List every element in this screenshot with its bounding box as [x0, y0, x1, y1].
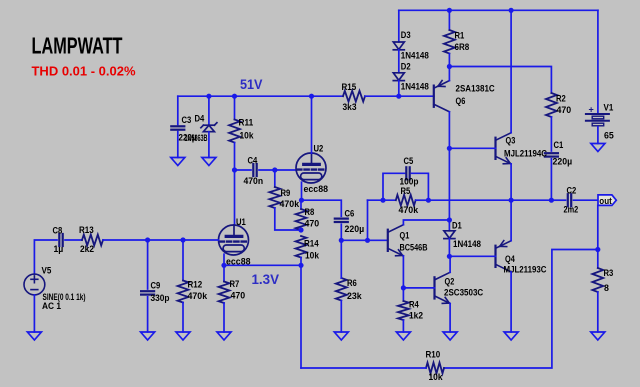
resistor R2 [546, 93, 557, 117]
capacitor C5 [406, 167, 409, 179]
svg-text:C9: C9 [151, 280, 161, 291]
junction Q3 collector rail [509, 8, 514, 13]
junction C5 left [380, 198, 385, 203]
svg-text:V1: V1 [604, 102, 614, 113]
wire R13 to U1 grid [103, 239, 219, 241]
svg-text:+: + [589, 105, 594, 115]
svg-text:LAMPWATT: LAMPWATT [32, 33, 123, 59]
wire Q6 emitter up [448, 67, 450, 81]
wire D1 bottom lead [448, 239, 450, 257]
svg-text:D2: D2 [401, 61, 411, 72]
resistor R5 [396, 195, 416, 206]
resistor R10 [426, 363, 444, 374]
capacitor C4 [253, 164, 256, 176]
svg-text:2m2: 2m2 [564, 204, 579, 215]
wire VAS column [448, 148, 450, 231]
transistor Q3 [496, 133, 512, 164]
wire V1 bottom lead [597, 127, 599, 144]
wire out down [597, 205, 599, 249]
zener D4 [201, 123, 217, 132]
wire D4 top lead [208, 96, 210, 125]
junction R3 R10 out [595, 247, 600, 252]
svg-text:Q2: Q2 [445, 276, 455, 287]
svg-text:Q3: Q3 [506, 135, 516, 146]
wire R8 top lead [300, 200, 302, 209]
ground C3 [171, 158, 185, 166]
svg-text:THD 0.01 - 0.02%: THD 0.01 - 0.02% [32, 65, 136, 79]
svg-text:R15: R15 [342, 81, 357, 92]
triode U2 ecc88 [296, 153, 326, 183]
wire C1 bottom lead [550, 159, 552, 200]
wire cathode row to C6 [302, 200, 342, 216]
svg-text:470k: 470k [188, 290, 208, 301]
wire fb row left [368, 199, 396, 201]
wire C8 to R13 [65, 239, 82, 241]
wire C4 left lead [235, 169, 252, 171]
svg-text:2SA1381C: 2SA1381C [456, 83, 495, 94]
capacitor C6 [335, 219, 348, 222]
svg-text:C6: C6 [345, 208, 355, 219]
svg-text:220µ: 220µ [345, 223, 365, 234]
wire C9 bottom lead [147, 297, 149, 332]
resistor R14 [296, 236, 307, 258]
wire C2 to out flag [574, 199, 598, 201]
wire R1 top lead [448, 10, 450, 30]
svg-text:220µ: 220µ [553, 156, 573, 167]
ground V1 [591, 144, 605, 152]
svg-text:6R8: 6R8 [455, 41, 470, 52]
junction C4 right R9 [272, 167, 277, 172]
svg-text:U2: U2 [314, 143, 324, 154]
wire Q6 collector down [448, 112, 450, 149]
ground D4 [202, 158, 216, 166]
junction R8 R14 R9 [298, 227, 303, 232]
resistor R6 [336, 278, 347, 301]
transistor Q4 [496, 241, 512, 272]
wire D4 bottom lead [208, 132, 210, 158]
wire 51V rail left [178, 95, 343, 97]
wire out row right [551, 199, 565, 201]
svg-text:C4: C4 [248, 155, 258, 166]
resistor R1 [444, 30, 455, 54]
diode D2 [393, 73, 404, 81]
battery V1 [586, 114, 609, 126]
svg-text:R6: R6 [347, 277, 357, 288]
svg-text:51V: 51V [240, 77, 263, 92]
wire C5 loop left [383, 173, 405, 200]
junction C1 out row [549, 198, 554, 203]
ground R7 [217, 332, 231, 340]
diode D3 [393, 42, 404, 50]
wire U1 cathode lead [223, 254, 225, 265]
svg-text:1.3V: 1.3V [252, 272, 280, 287]
junction fb tap [365, 238, 370, 243]
wire R6 top lead [340, 240, 342, 278]
wire U2 cathode lead [301, 182, 303, 200]
junction C9 input row [145, 237, 150, 242]
svg-text:470k: 470k [280, 198, 300, 209]
svg-text:R4: R4 [409, 299, 419, 310]
svg-text:3k3: 3k3 [343, 101, 357, 112]
triode U1 ecc88 [219, 225, 249, 255]
junction C6 R6 base row [339, 238, 344, 243]
svg-text:V5: V5 [42, 265, 52, 276]
svg-text:470k: 470k [399, 204, 419, 215]
svg-text:10k: 10k [305, 249, 320, 260]
ground Q2 [443, 332, 457, 340]
junction D1 Q4 base row [447, 254, 452, 259]
wire Q3 base row [449, 147, 495, 149]
svg-text:470: 470 [557, 104, 572, 115]
wire fb tap up [367, 200, 369, 240]
svg-text:R5: R5 [401, 185, 411, 196]
wire Q1 base row [341, 239, 388, 241]
wire cathode 1.3V row [224, 264, 301, 266]
junction R11 rail [232, 94, 237, 99]
wire R12 top lead [182, 240, 184, 281]
svg-text:R12: R12 [188, 279, 203, 290]
wire Q2 collector up [449, 256, 451, 272]
wire R2 to C1 [550, 117, 552, 151]
wire C4 right lead [259, 169, 275, 171]
wire Q1 emitter down [402, 256, 404, 288]
wire R3 bottom lead [597, 292, 599, 332]
wire fb row right [416, 199, 429, 201]
wire R1 bottom lead [448, 54, 450, 67]
svg-text:470: 470 [305, 217, 320, 228]
svg-text:10k: 10k [429, 371, 444, 382]
wire C9 top lead [147, 240, 149, 289]
svg-text:R7: R7 [230, 278, 240, 289]
wire R4 top lead [402, 288, 404, 301]
svg-text:R3: R3 [604, 267, 614, 278]
svg-text:1µ: 1µ [54, 243, 64, 254]
wire R1-R2 row [449, 67, 551, 94]
svg-text:R2: R2 [556, 93, 566, 104]
svg-text:C1: C1 [554, 139, 564, 150]
junction Q1 emitter R4 Q2 [401, 285, 406, 290]
svg-text:330p: 330p [151, 292, 170, 303]
wire R14 bottom lead [300, 258, 302, 266]
resistor R3 [592, 268, 603, 292]
wire Q3 collector up [510, 10, 512, 132]
svg-text:MJL21194C: MJL21194C [504, 148, 547, 159]
transistor Q2 [435, 272, 451, 303]
svg-text:65: 65 [604, 130, 614, 141]
wire Q4 emitter up [510, 200, 512, 241]
wire R4 bottom lead [402, 320, 404, 332]
svg-text:D1: D1 [452, 220, 462, 231]
wire V1 top lead [597, 10, 599, 112]
transistor Q6 [434, 81, 450, 112]
wire R11 top lead [234, 96, 236, 119]
svg-text:10k: 10k [240, 130, 255, 141]
resistor R8 [296, 209, 307, 230]
ground R12 [176, 332, 190, 340]
resistor R13 [82, 235, 103, 246]
svg-text:R14: R14 [304, 238, 319, 249]
svg-text:D3: D3 [401, 29, 411, 40]
wire R3 top lead [597, 250, 599, 269]
wire U2 grid lead [275, 169, 297, 171]
wire Q4 base row [449, 255, 495, 257]
svg-text:8: 8 [604, 282, 609, 293]
svg-text:AC 1: AC 1 [42, 300, 61, 311]
capacitor C1 [545, 153, 558, 156]
ground C9 [141, 332, 155, 340]
svg-text:R11: R11 [239, 117, 254, 128]
wire R12 bottom lead [182, 303, 184, 333]
svg-text:R8: R8 [305, 206, 315, 217]
wire Q4 collector down [510, 272, 512, 332]
junction R14 cathode row [298, 263, 303, 268]
junction R1 R2 row [447, 64, 452, 69]
capacitor C8 [59, 234, 62, 246]
wire U2 anode lead [311, 96, 313, 153]
junction C4 left [232, 167, 237, 172]
wire top rail [399, 9, 598, 11]
diode D1 [444, 231, 455, 239]
svg-text:2k2: 2k2 [80, 243, 94, 254]
svg-text:1N4148: 1N4148 [453, 238, 481, 249]
wire R9 top lead [274, 170, 276, 187]
junction Q1 collector node [447, 217, 452, 222]
svg-text:D4: D4 [195, 113, 205, 124]
svg-text:BC546B: BC546B [400, 242, 428, 253]
svg-text:470n: 470n [244, 175, 264, 186]
wire R6 bottom lead [340, 301, 342, 333]
junction out row emitters [509, 198, 514, 203]
svg-text:1k2: 1k2 [409, 310, 423, 321]
net flag out [598, 195, 616, 206]
capacitor C9 [141, 291, 154, 294]
resistor R7 [219, 282, 230, 304]
wire R9 bottom lead [275, 208, 301, 230]
wire C6 bottom lead [340, 224, 342, 240]
svg-text:U1: U1 [236, 216, 246, 227]
svg-text:1N5363B: 1N5363B [185, 132, 208, 143]
ground R4 [396, 332, 410, 340]
junction U1 cathode R7 [221, 263, 226, 268]
resistor R11 [229, 120, 240, 143]
wire Q3 emitter down [510, 164, 512, 200]
svg-text:out: out [599, 196, 612, 207]
svg-text:1N4148: 1N4148 [401, 81, 429, 92]
svg-text:C3: C3 [182, 114, 192, 125]
junction R1 top rail [447, 8, 452, 13]
ground R3 [591, 332, 605, 340]
ground V5 [27, 332, 41, 340]
svg-text:Q4: Q4 [505, 253, 515, 264]
wire R7 bottom lead [223, 303, 225, 332]
svg-text:ecc88: ecc88 [304, 183, 329, 194]
source V5 sine [24, 274, 45, 295]
svg-text:C5: C5 [404, 155, 414, 166]
wire Q1 collector up [403, 220, 449, 225]
wire V5 top lead [34, 240, 57, 274]
resistor R9 [269, 187, 280, 208]
capacitor C2 [568, 194, 571, 206]
wire R10 right lead [444, 250, 598, 369]
svg-text:R9: R9 [281, 187, 291, 198]
junction U2 cathode [299, 198, 304, 203]
svg-text:Q6: Q6 [456, 95, 466, 106]
wire Q2 base row [403, 287, 434, 289]
svg-text:2SC3503C: 2SC3503C [444, 287, 483, 298]
svg-text:MJL21193C: MJL21193C [504, 264, 547, 275]
wire C5 loop right [412, 173, 429, 200]
capacitor C3 [171, 126, 184, 129]
svg-text:C2: C2 [567, 185, 577, 196]
svg-text:1N4148: 1N4148 [401, 50, 429, 61]
svg-text:R13: R13 [79, 224, 94, 235]
resistor R12 [178, 281, 189, 303]
wire D3-D2 link [398, 50, 400, 73]
ground R6 [334, 332, 348, 340]
junction U2 anode rail [309, 94, 314, 99]
wire feedback drop [300, 265, 302, 368]
svg-text:R1: R1 [455, 30, 465, 41]
resistor R15 [343, 91, 365, 102]
resistor R4 [398, 301, 409, 320]
svg-text:470: 470 [231, 290, 246, 301]
ground Q4 [504, 332, 518, 340]
wire C3 top lead [177, 96, 179, 124]
wire Q2 emitter down [449, 304, 451, 333]
junction Q3 base row [447, 146, 452, 151]
wire R11 to U1 anode [234, 143, 236, 226]
svg-text:C8: C8 [53, 225, 63, 236]
wire D2 bottom lead [398, 81, 400, 97]
wire R10 left lead [301, 367, 426, 369]
wire R15 to Q6 base [365, 95, 434, 97]
wire R7 top lead [223, 265, 225, 281]
junction D2 rail [396, 94, 401, 99]
wire D3 top lead [398, 10, 400, 42]
svg-text:R10: R10 [426, 349, 441, 360]
svg-text:23k: 23k [347, 290, 362, 301]
junction D4 rail [206, 94, 211, 99]
svg-text:Q1: Q1 [400, 229, 410, 240]
wire out row [428, 199, 551, 201]
transistor Q1 [388, 225, 404, 256]
junction R12 input row [180, 237, 185, 242]
junction C5 right [426, 198, 431, 203]
wire C3 bottom lead [177, 132, 179, 158]
wire V5 bottom lead [33, 295, 35, 332]
